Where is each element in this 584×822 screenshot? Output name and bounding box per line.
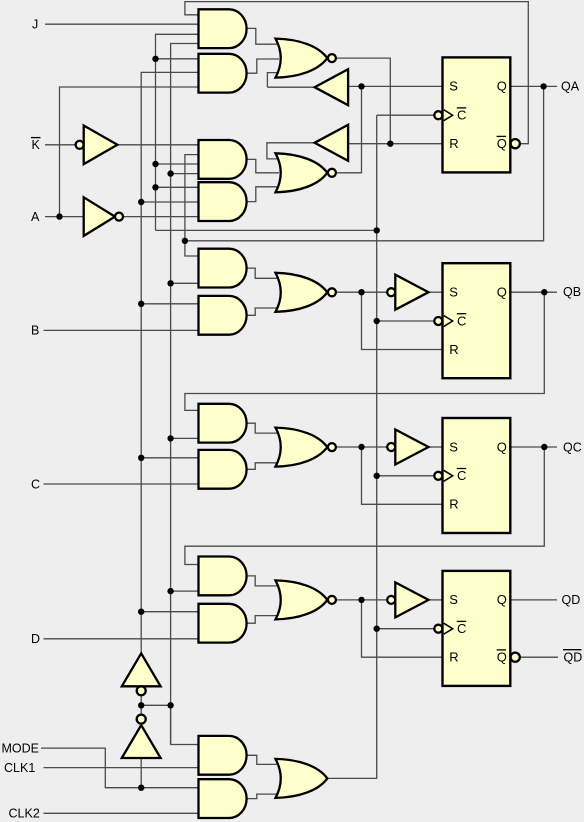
svg-text:CLK1: CLK1 bbox=[4, 761, 35, 775]
svg-text:Q: Q bbox=[497, 79, 507, 94]
svg-text:QD: QD bbox=[562, 593, 581, 607]
svg-text:K: K bbox=[32, 138, 41, 152]
svg-text:CLK2: CLK2 bbox=[9, 807, 40, 821]
svg-text:S: S bbox=[449, 439, 458, 454]
svg-text:Q: Q bbox=[497, 136, 507, 151]
svg-text:S: S bbox=[449, 592, 458, 607]
svg-text:Q: Q bbox=[497, 650, 507, 665]
svg-text:QB: QB bbox=[563, 285, 581, 299]
svg-text:B: B bbox=[31, 324, 39, 338]
svg-text:QC: QC bbox=[563, 440, 582, 454]
svg-text:Q: Q bbox=[497, 592, 507, 607]
svg-text:C: C bbox=[457, 468, 466, 483]
svg-text:R: R bbox=[449, 136, 458, 151]
svg-text:Q: Q bbox=[497, 439, 507, 454]
svg-text:S: S bbox=[449, 285, 458, 300]
svg-text:A: A bbox=[31, 210, 40, 224]
svg-text:R: R bbox=[449, 342, 458, 357]
svg-text:MODE: MODE bbox=[2, 741, 40, 755]
svg-text:C: C bbox=[457, 108, 466, 123]
svg-text:J: J bbox=[32, 18, 38, 32]
svg-text:S: S bbox=[449, 79, 458, 94]
svg-text:QD: QD bbox=[564, 651, 583, 665]
svg-text:C: C bbox=[457, 621, 466, 636]
svg-text:R: R bbox=[449, 497, 458, 512]
svg-text:Q: Q bbox=[497, 285, 507, 300]
svg-text:QA: QA bbox=[561, 80, 580, 94]
svg-text:D: D bbox=[31, 632, 40, 646]
svg-text:C: C bbox=[457, 313, 466, 328]
svg-text:R: R bbox=[449, 650, 458, 665]
svg-text:C: C bbox=[31, 477, 40, 491]
